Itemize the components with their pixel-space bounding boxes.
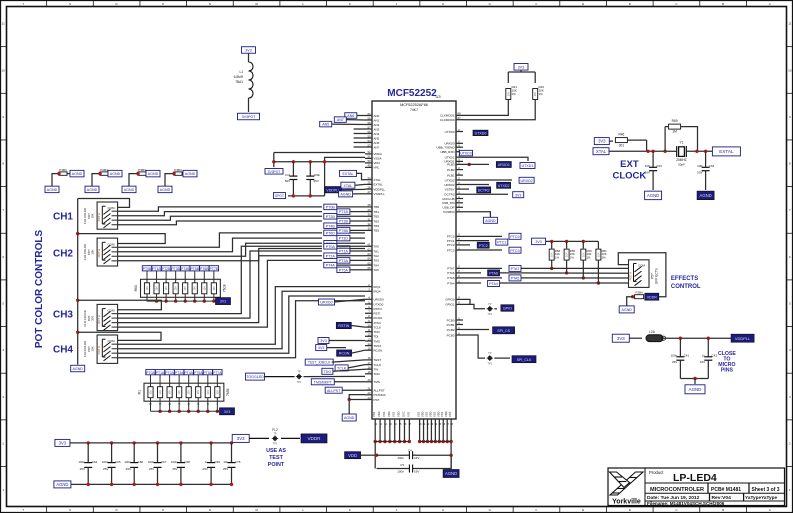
svg-text:10: 10 (367, 323, 371, 327)
svg-text:VDDR: VDDR (647, 295, 658, 299)
svg-text:ALLPST: ALLPST (374, 389, 385, 393)
wire bottom bus (375, 441, 409, 443)
svg-text:22: 22 (367, 391, 371, 395)
svg-text:POINT: POINT (268, 462, 285, 468)
svg-text:PTA6: PTA6 (489, 272, 498, 276)
U3 left pins AN0-AN7 (365, 115, 372, 117)
svg-text:AGND: AGND (110, 172, 121, 176)
svg-text:PT6B: PT6B (200, 267, 209, 271)
net label VDDPLL mid (325, 187, 342, 193)
svg-text:10: 10 (788, 68, 792, 72)
svg-text:PT5B: PT5B (191, 267, 200, 271)
svg-text:10K: 10K (91, 249, 95, 254)
svg-text:10K: 10K (551, 252, 554, 257)
svg-text:TP1: TP1 (487, 361, 492, 365)
svg-text:URXD0: URXD0 (320, 301, 332, 305)
svg-text:CONTROL: CONTROL (671, 284, 701, 290)
svg-text:TP1: TP1 (273, 442, 278, 446)
wire SPI_CLK path (463, 335, 485, 358)
svg-text:PTC3: PTC3 (447, 248, 455, 252)
net label VDD bottom (345, 452, 361, 459)
U3 left pins VDDA VSSA VRH VRL (365, 153, 372, 155)
svg-text:10K: 10K (165, 286, 168, 291)
net label VDDR (301, 434, 327, 443)
svg-text:10K: 10K (188, 390, 191, 395)
svg-text:E: E (582, 2, 584, 6)
svg-text:C66: C66 (138, 460, 144, 464)
svg-text:7BA1: 7BA1 (235, 80, 243, 84)
svg-text:TIN: TIN (374, 368, 379, 372)
svg-text:AGND: AGND (700, 193, 712, 198)
svg-text:TB0: TB0 (374, 205, 380, 209)
svg-text:PTC1: PTC1 (497, 241, 506, 245)
svg-text:E: E (582, 508, 584, 512)
svg-text:10K: 10K (178, 390, 181, 395)
svg-text:11: 11 (2, 22, 5, 26)
svg-text:PT2A: PT2A (326, 254, 336, 258)
net label RCON (337, 350, 352, 356)
resistor R41 (506, 89, 511, 100)
svg-text:51: 51 (367, 155, 371, 159)
power label 3V3 capbank (55, 439, 70, 446)
svg-text:TB1: TB1 (374, 210, 380, 214)
svg-text:Filename: M1481V04SCH.SCH(2006: Filename: M1481V04SCH.SCH(2006 (647, 501, 725, 506)
ground AGND close (685, 385, 705, 394)
svg-text:VDDA: VDDA (374, 152, 382, 156)
wire GPIO row (463, 299, 470, 304)
svg-text:A: A (769, 2, 771, 6)
wire CH4 COM loop (78, 332, 161, 340)
svg-text:3V3: 3V3 (245, 49, 251, 53)
ground AGND pot bus (71, 365, 85, 372)
svg-text:PLB2: PLB2 (447, 168, 455, 172)
U3 bottom pins group2 (419, 419, 421, 425)
svg-text:100n: 100n (124, 460, 131, 464)
svg-text:AN7: AN7 (374, 145, 380, 149)
net label URXD0 left (319, 299, 335, 305)
svg-text:LP-LED4: LP-LED4 (673, 472, 717, 484)
capacitor C69 (209, 441, 212, 444)
svg-text:R1: R1 (138, 390, 142, 394)
svg-text:C42: C42 (712, 354, 718, 358)
svg-text:PT0D: PT0D (326, 232, 336, 236)
svg-text:PT3A: PT3A (175, 371, 184, 375)
net label XTAL mid (341, 182, 355, 188)
wire pll cap bottom rail (288, 195, 325, 197)
net label PTA6 (463, 272, 481, 274)
svg-text:24: 24 (367, 176, 371, 180)
svg-text:27: 27 (367, 190, 371, 194)
wires CH3 risers (118, 246, 322, 313)
svg-text:CH3: CH3 (53, 310, 73, 321)
svg-text:TB5: TB5 (374, 229, 380, 233)
svg-text:7656: 7656 (226, 388, 230, 396)
svg-text:VSS: VSS (424, 412, 428, 417)
capacitor C68 (179, 441, 182, 444)
svg-text:301: 301 (619, 144, 625, 148)
capacitor C63 (652, 151, 654, 164)
svg-text:B: B (722, 2, 724, 6)
svg-text:18: 18 (367, 366, 371, 370)
svg-text:AGND: AGND (87, 188, 98, 192)
svg-text:VDD: VDD (387, 411, 391, 417)
svg-text:64: 64 (367, 257, 371, 261)
svg-text:GPIO: GPIO (503, 307, 512, 311)
svg-text:L2A: L2A (649, 330, 656, 334)
net label TEST_JOBCLK (305, 359, 333, 365)
svg-text:N: N (209, 2, 211, 6)
svg-text:10P: 10P (645, 164, 650, 168)
svg-text:VSS: VSS (448, 412, 452, 417)
svg-text:A: A (769, 508, 771, 512)
svg-text:UTXD2: UTXD2 (498, 184, 510, 188)
svg-text:PT6A: PT6A (204, 371, 213, 375)
capbank rails (70, 442, 232, 444)
svg-text:T: T (22, 508, 24, 512)
svg-text:H: H (442, 2, 444, 6)
U3 right pins GPIO (456, 298, 463, 300)
svg-text:3V3: 3V3 (59, 441, 67, 446)
svg-text:PT5A: PT5A (339, 268, 349, 272)
svg-text:TP: TP (297, 370, 301, 374)
svg-text:10K: 10K (507, 91, 510, 96)
ground AGND c63 (645, 191, 662, 200)
net label DCTR2 (463, 188, 469, 190)
svg-text:100n: 100n (171, 460, 178, 464)
svg-text:C63: C63 (656, 164, 662, 168)
resistor network R1 box (144, 383, 224, 401)
ground AGND c64 (697, 191, 714, 200)
svg-text:PTA4: PTA4 (489, 282, 498, 286)
svg-text:TDO: TDO (374, 330, 381, 334)
svg-text:AGND: AGND (485, 219, 496, 223)
net labels CH2 rows (324, 230, 337, 236)
svg-text:MCF52252AF66: MCF52252AF66 (400, 103, 428, 107)
svg-text:AGND: AGND (73, 367, 84, 371)
svg-text:URXD0: URXD0 (374, 298, 385, 302)
svg-text:AN1: AN1 (374, 118, 380, 122)
svg-text:PT0B: PT0B (143, 267, 152, 271)
svg-text:10K: 10K (207, 390, 210, 395)
svg-text:7608: 7608 (222, 284, 226, 292)
svg-text:32: 32 (367, 222, 371, 226)
svg-text:EXT: EXT (620, 159, 639, 170)
U3 bottom pins group1 VSS/VDD (374, 419, 376, 425)
svg-text:K: K (349, 2, 351, 6)
svg-text:PSTDDA: PSTDDA (374, 393, 386, 397)
wire VSSOSC to AGND (463, 212, 490, 217)
capacitor C5 (377, 468, 407, 470)
wire effects COM loop (618, 253, 666, 297)
svg-text:R63: R63 (134, 285, 138, 291)
svg-text:VSS: VSS (440, 412, 444, 417)
svg-text:TA0: TA0 (374, 245, 380, 249)
svg-text:100n: 100n (671, 354, 678, 358)
svg-text:PTA6: PTA6 (447, 271, 455, 275)
svg-text:TOGGLED: TOGGLED (246, 375, 264, 379)
svg-text:11: 11 (368, 328, 371, 332)
svg-text:10K: 10K (91, 316, 95, 321)
svg-text:50V: 50V (285, 179, 290, 183)
svg-text:1u: 1u (702, 354, 706, 358)
svg-text:VDD: VDD (436, 411, 440, 417)
ground AGND capbank (54, 481, 71, 488)
svg-text:TB3: TB3 (374, 219, 380, 223)
net label UTXD2 (463, 184, 489, 186)
title block (608, 468, 785, 506)
svg-text:66: 66 (367, 266, 371, 270)
svg-text:USB_DM: USB_DM (442, 201, 455, 205)
net label URXD2 (463, 179, 512, 181)
svg-text:11: 11 (788, 22, 791, 26)
svg-text:POT COLOR CONTROLS: POT COLOR CONTROLS (34, 230, 45, 349)
svg-text:31: 31 (367, 217, 371, 221)
net label AN6 (345, 113, 357, 119)
svg-text:100n: 100n (102, 460, 109, 464)
connector P57 effects outline (629, 260, 650, 288)
wire P4A to AGND bottom (165, 174, 174, 187)
wire CH2 COM loop (78, 234, 166, 244)
power label 3V3 effects pullup (532, 238, 546, 245)
net label 3V3 rstin (318, 338, 329, 344)
svg-text:VSS: VSS (406, 412, 410, 417)
svg-text:PTC0: PTC0 (510, 235, 519, 239)
svg-text:VRH: VRH (374, 161, 380, 165)
test point TP1 (297, 375, 301, 379)
svg-text:DCTR2: DCTR2 (478, 189, 490, 193)
svg-text:16V: 16V (414, 456, 419, 460)
svg-text:PCB1: PCB1 (447, 323, 455, 327)
net label UCTS0 (473, 130, 488, 136)
power label 3V3 top (242, 47, 256, 54)
svg-text:25: 25 (367, 181, 371, 185)
svg-text:UTXD2: UTXD2 (445, 178, 455, 182)
svg-text:C68: C68 (184, 460, 190, 464)
svg-text:EXTAL: EXTAL (374, 183, 384, 187)
svg-text:Product: Product (649, 470, 664, 475)
svg-text:VSS: VSS (382, 412, 386, 417)
svg-text:AGND: AGND (124, 188, 135, 192)
svg-text:GPIO1: GPIO1 (445, 303, 455, 307)
resistor network R1 labels (146, 370, 155, 375)
svg-text:53: 53 (367, 143, 371, 147)
svg-text:MCF52252: MCF52252 (387, 88, 437, 99)
svg-text:AGND: AGND (47, 188, 58, 192)
svg-text:TEST: TEST (374, 358, 382, 362)
feedback loop R69 (664, 127, 666, 152)
wires pullups to PTA rows (551, 260, 553, 268)
svg-text:55: 55 (367, 134, 371, 138)
svg-text:C67: C67 (161, 460, 167, 464)
wire UTXD0 label (458, 151, 463, 153)
svg-text:PT5A: PT5A (194, 371, 203, 375)
svg-text:PT1D: PT1D (339, 237, 349, 241)
svg-text:10K: 10K (203, 286, 206, 291)
svg-text:100n: 100n (78, 460, 85, 464)
net label 3V3POT top (238, 113, 260, 120)
svg-text:C11: C11 (285, 173, 291, 177)
svg-text:62: 62 (367, 247, 371, 251)
wire vdda feed (273, 153, 275, 168)
op-amp U3 MCF52252 outline (372, 101, 456, 419)
wires CH1 to PTB rows (118, 207, 322, 211)
svg-text:VDDPLL: VDDPLL (374, 187, 386, 191)
svg-text:EXTAL: EXTAL (719, 149, 734, 154)
svg-text:C4: C4 (408, 449, 412, 453)
U3 left pins PTB group (365, 206, 372, 208)
svg-text:TMS: TMS (374, 339, 380, 343)
svg-text:R46: R46 (618, 133, 624, 137)
svg-text:AN5: AN5 (374, 136, 380, 140)
svg-text:TMS: TMS (374, 380, 380, 384)
svg-text:VSS: VSS (432, 412, 436, 417)
svg-text:PT4B: PT4B (326, 224, 336, 228)
svg-text:ROT H: ROT H (97, 346, 101, 355)
svg-text:AGND: AGND (56, 482, 68, 487)
svg-text:K: K (349, 508, 351, 512)
svg-text:PCB0: PCB0 (447, 318, 455, 322)
svg-text:TDI: TDI (374, 335, 379, 339)
svg-text:3V3: 3V3 (237, 436, 245, 441)
net label PTA7 (463, 267, 502, 269)
svg-text:10K: 10K (216, 390, 219, 395)
net label ALLPST (325, 387, 342, 393)
net labels PTA rows (324, 244, 337, 250)
net label VDDR effects (645, 293, 659, 300)
net label AN7 (334, 117, 346, 123)
wire P2A to AGND right (107, 173, 109, 175)
svg-text:TEST_JOBCLK: TEST_JOBCLK (308, 361, 331, 365)
svg-text:25V: 25V (103, 467, 108, 471)
resistor R42 (533, 89, 538, 100)
svg-text:6.8MH: 6.8MH (234, 75, 244, 79)
wire CH1 COM loop (78, 199, 130, 208)
svg-text:49: 49 (367, 164, 371, 168)
net label TCLK (335, 365, 348, 371)
net label VDDPLL (731, 334, 754, 342)
svg-text:61: 61 (367, 243, 371, 247)
net label EXTAL extclock (712, 147, 740, 156)
svg-text:RSTI: RSTI (374, 312, 381, 316)
svg-text:AGND: AGND (622, 308, 633, 312)
svg-text:ROT H: ROT H (629, 272, 633, 281)
U3 left pins PTA group (365, 245, 372, 247)
svg-text:25V: 25V (126, 467, 131, 471)
svg-text:25V: 25V (149, 467, 154, 471)
capacitor C76 (230, 441, 233, 444)
ground AGND effects (619, 306, 634, 313)
svg-text:CLOCK: CLOCK (613, 171, 647, 182)
capacitor C42 (707, 338, 709, 353)
svg-text:TP1: TP1 (487, 312, 492, 316)
svg-text:25V: 25V (672, 360, 677, 364)
svg-text:ALLPST: ALLPST (327, 389, 341, 393)
svg-text:AGND: AGND (160, 188, 171, 192)
svg-text:10u: 10u (223, 460, 228, 464)
svg-text:VSTBY: VSTBY (445, 187, 455, 191)
svg-text:VDD: VDD (428, 411, 432, 417)
svg-text:TP: TP (273, 431, 277, 435)
svg-text:74K7: 74K7 (410, 108, 418, 112)
wire vddpll rail (663, 337, 731, 339)
capacitor C64 (705, 151, 707, 164)
svg-text:UTXD0: UTXD0 (374, 302, 384, 306)
svg-text:TP: TP (488, 302, 492, 306)
svg-text:3V3: 3V3 (318, 346, 324, 350)
svg-text:65: 65 (367, 261, 371, 265)
U3 right pins PCB group (456, 319, 463, 321)
svg-text:10P: 10P (697, 164, 702, 168)
svg-text:F: F (536, 2, 538, 6)
svg-text:YaTypeYaType: YaTypeYaType (745, 495, 778, 500)
svg-text:10K: 10K (91, 213, 95, 218)
wire to agnd bottom (450, 455, 452, 469)
svg-text:10K: 10K (184, 286, 187, 291)
svg-text:100n: 100n (397, 456, 404, 460)
wire effects ferrite to agnd (633, 296, 635, 298)
svg-text:URXD2: URXD2 (521, 179, 533, 183)
net label AN5 (320, 121, 332, 127)
test point TP2 (488, 307, 492, 311)
svg-text:PTA7: PTA7 (511, 267, 520, 271)
svg-text:63: 63 (367, 252, 371, 256)
svg-text:3V3: 3V3 (617, 336, 625, 341)
svg-text:VDD: VDD (444, 411, 448, 417)
capacitor C11 (292, 162, 294, 173)
test point TP3 (488, 356, 492, 360)
svg-text:3V3: 3V3 (220, 300, 226, 304)
svg-text:3V3: 3V3 (224, 410, 230, 414)
svg-text:17: 17 (367, 361, 371, 365)
svg-text:PTC2: PTC2 (447, 243, 455, 247)
svg-text:87: 87 (457, 116, 461, 120)
svg-text:TEST: TEST (269, 455, 283, 461)
svg-text:30: 30 (367, 213, 371, 217)
svg-text:TB2: TB2 (374, 215, 380, 219)
svg-text:PTA4: PTA4 (447, 281, 455, 285)
svg-text:IRQ4: IRQ4 (374, 290, 381, 294)
svg-text:VDD: VDD (377, 411, 381, 417)
net label SPI_CLK (494, 357, 510, 359)
svg-text:10K: 10K (597, 252, 600, 257)
svg-text:100n: 100n (314, 173, 321, 177)
svg-text:AN4: AN4 (374, 132, 380, 136)
resistor R46 (609, 140, 613, 142)
svg-text:50: 50 (367, 159, 371, 163)
svg-text:10K: 10K (175, 286, 178, 291)
svg-text:IRQ1: IRQ1 (374, 285, 381, 289)
svg-text:16V: 16V (414, 469, 419, 473)
ground AGND bottom (443, 470, 459, 478)
wire pll cap top rail (274, 161, 365, 163)
net label URXD1 (463, 163, 489, 165)
resistor network R63 resistors (146, 271, 148, 283)
svg-text:P: P (162, 508, 164, 512)
svg-text:PT3A: PT3A (339, 259, 349, 263)
svg-text:PT0B: PT0B (326, 206, 336, 210)
svg-text:T: T (22, 2, 24, 6)
svg-text:RSTIN: RSTIN (338, 324, 349, 328)
svg-text:10K: 10K (194, 286, 197, 291)
svg-text:TA1: TA1 (374, 249, 380, 253)
junction URXD1 (468, 163, 471, 166)
svg-text:3V3: 3V3 (515, 193, 521, 197)
svg-text:23: 23 (367, 396, 371, 400)
svg-text:1%: 1% (555, 255, 560, 259)
svg-text:54: 54 (367, 139, 371, 143)
svg-text:EXTAL: EXTAL (342, 172, 353, 176)
wire pot common bus (77, 199, 79, 365)
